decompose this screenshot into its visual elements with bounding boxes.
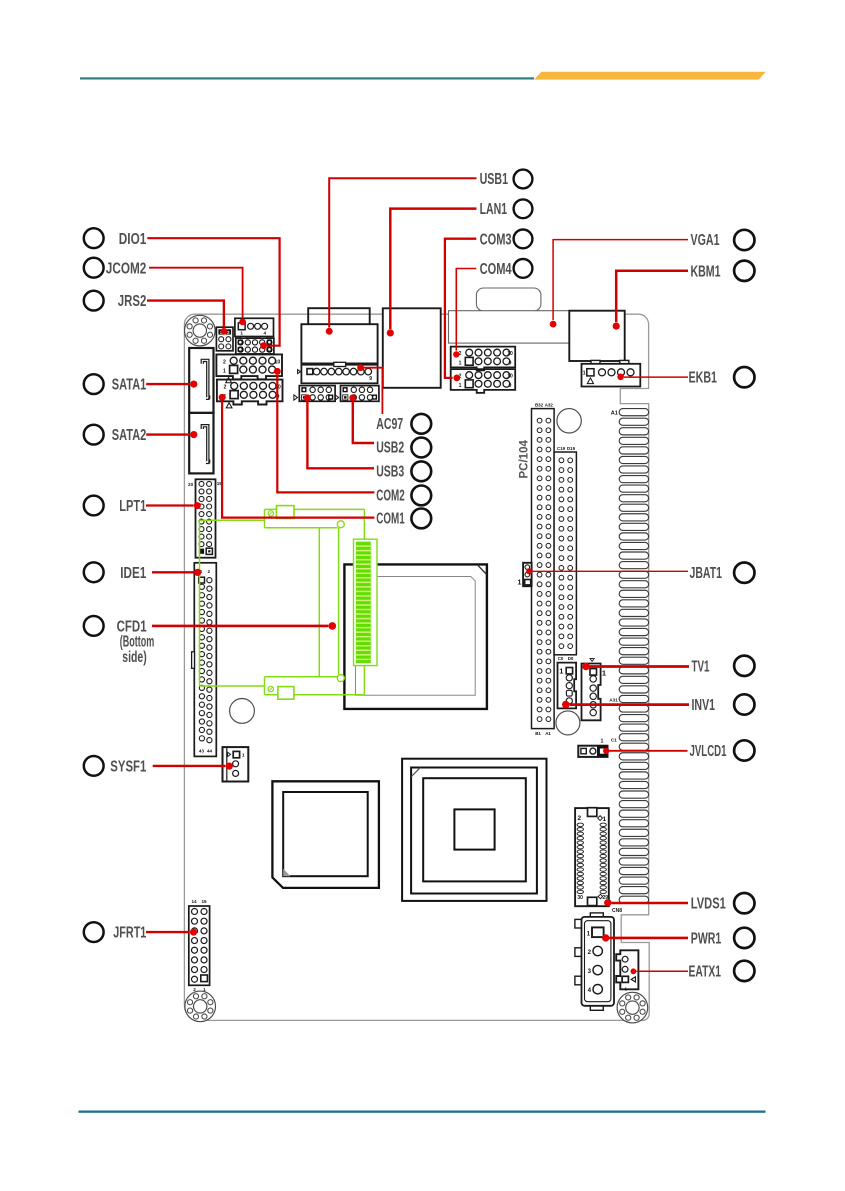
callout dot USB2 <box>349 394 356 401</box>
callout dot INV1 <box>562 701 570 709</box>
svg-text:20: 20 <box>188 482 194 487</box>
callout line KBM1 <box>616 271 688 322</box>
callout dot VGA1 <box>550 321 557 328</box>
svg-text:1: 1 <box>459 361 462 367</box>
chip southbridge inner <box>283 792 368 876</box>
callout line JRS2 <box>147 301 224 328</box>
label circle JFRT1 <box>84 922 104 942</box>
connector USB1 body <box>301 324 377 363</box>
chip southbridge outer <box>272 781 379 888</box>
svg-text:JCOM2: JCOM2 <box>106 260 147 277</box>
svg-text:EATX1: EATX1 <box>689 964 722 981</box>
chip CPU U1 outer <box>344 564 487 709</box>
svg-text:COM4: COM4 <box>480 261 512 278</box>
svg-text:14: 14 <box>191 899 197 904</box>
connector TV1 <box>582 659 607 721</box>
svg-text:INV1: INV1 <box>692 697 716 714</box>
label circle COM2 <box>411 486 431 506</box>
label circle KBM1 <box>734 261 754 281</box>
callout line PWR1 <box>609 937 688 940</box>
header COM2 <box>216 354 282 382</box>
label circle COM3 <box>514 230 533 249</box>
label circle LPT1 <box>84 496 104 516</box>
callout dot CFD1 <box>329 622 337 630</box>
label circle PWR1 <box>734 928 754 948</box>
svg-text:1: 1 <box>587 931 591 938</box>
jumper JBAT1 <box>517 563 531 587</box>
board outline <box>184 314 649 1020</box>
svg-text:2: 2 <box>193 987 196 992</box>
svg-text:CN8: CN8 <box>612 908 622 914</box>
callout dot COM4 <box>453 351 459 357</box>
svg-text:A1: A1 <box>611 411 618 417</box>
label circle LAN1 <box>514 199 533 218</box>
label circle CFD1 <box>84 616 104 636</box>
CF latch top <box>277 506 295 519</box>
callout line COM2 <box>277 375 374 493</box>
svg-text:C0: C0 <box>558 656 564 661</box>
svg-text:B1: B1 <box>535 731 541 736</box>
header rule teal <box>80 77 534 79</box>
chip BGA ring3 <box>423 778 526 881</box>
svg-text:43: 43 <box>199 749 204 754</box>
svg-text:2: 2 <box>208 569 211 574</box>
svg-text:D0: D0 <box>568 656 574 661</box>
callout line LAN1 <box>390 209 476 329</box>
label circle JRS2 <box>84 291 104 311</box>
svg-text:3: 3 <box>588 968 592 975</box>
jumper JVLCD1 <box>578 738 607 757</box>
callout dot USB3 <box>304 394 311 401</box>
svg-text:side): side) <box>122 649 147 666</box>
callout dot PWR1 <box>602 934 609 941</box>
header JCOM2 <box>235 318 274 339</box>
svg-text:2: 2 <box>223 385 226 391</box>
header PC/104 rows C-D <box>554 446 576 661</box>
callout line CFD1 <box>152 625 328 628</box>
label circle COM1 <box>411 509 431 529</box>
svg-text:COM1: COM1 <box>376 511 405 528</box>
svg-text:SYSF1: SYSF1 <box>110 759 146 776</box>
callout dot DIO1 <box>260 342 267 349</box>
callout line USB2 <box>353 401 374 443</box>
header USB2 <box>335 386 379 402</box>
label circle JVLCD1 <box>734 740 754 760</box>
connector USB1 tab <box>308 308 370 324</box>
callout line JFRT1 <box>146 931 190 933</box>
svg-text:(Bottom: (Bottom <box>120 634 155 651</box>
callout dot JFRT1 <box>190 929 197 936</box>
callout dot JVLCD1 <box>603 748 609 754</box>
header PC/104 rows A-B <box>532 402 555 736</box>
svg-text:JVLCD1: JVLCD1 <box>690 743 727 760</box>
svg-text:10: 10 <box>275 359 281 365</box>
mounting hole bottom-right <box>617 992 648 1023</box>
svg-text:1: 1 <box>600 738 603 744</box>
CF latch bottom <box>278 687 294 700</box>
callout line AC97 <box>361 368 383 414</box>
svg-text:COM3: COM3 <box>480 231 512 248</box>
svg-text:JRS2: JRS2 <box>118 293 147 310</box>
svg-text:9: 9 <box>509 383 512 389</box>
svg-text:DIO1: DIO1 <box>119 231 147 248</box>
callout line TV1 <box>590 665 690 668</box>
svg-text:A31: A31 <box>609 698 618 703</box>
connector LVDS1 <box>575 808 609 906</box>
header JRS2 <box>216 327 233 351</box>
svg-text:10: 10 <box>507 351 513 357</box>
label circle VGA1 <box>734 230 754 250</box>
label circle LVDS1 <box>734 893 754 913</box>
footer rule blue <box>79 1111 766 1113</box>
connector SATA2 <box>189 413 213 474</box>
svg-text:VGA1: VGA1 <box>691 232 720 249</box>
chip BGA ring2 <box>411 768 537 894</box>
svg-text:1: 1 <box>240 331 243 336</box>
svg-text:2: 2 <box>577 815 581 822</box>
connector SATA1 <box>189 348 213 413</box>
header COM4 <box>451 369 516 393</box>
callout dot EATX1 <box>631 968 637 974</box>
mounting hole top-left <box>185 315 216 346</box>
svg-text:4: 4 <box>588 987 592 994</box>
svg-text:30: 30 <box>577 895 583 901</box>
callout dot SATA1 <box>190 381 197 388</box>
svg-text:USB2: USB2 <box>376 440 404 457</box>
chip CPU U1 inner <box>356 577 476 696</box>
callout dot JCOM2 <box>239 319 246 326</box>
callout dot COM2 <box>274 368 281 375</box>
connector VGA1 body <box>449 311 570 343</box>
connector EATX1 <box>616 950 638 991</box>
callout line EKB1 <box>624 376 688 378</box>
header IDE1 <box>192 563 217 757</box>
CF guide circle bottom <box>337 675 344 682</box>
label circle DIO1 <box>84 228 104 248</box>
label circle SATA2 <box>84 425 104 445</box>
header USB3 <box>294 386 335 402</box>
callout line COM1 <box>222 401 374 518</box>
callout line USB1 <box>329 178 476 327</box>
callout dot LPT1 <box>194 502 201 509</box>
board edge fingers <box>619 409 648 904</box>
label circle USB1 <box>514 170 533 189</box>
callout line COM3 <box>445 239 476 378</box>
callout dot IDE1 <box>194 569 201 576</box>
callout line SATA2 <box>146 433 190 435</box>
svg-text:EKB1: EKB1 <box>689 370 718 387</box>
svg-text:KBM1: KBM1 <box>691 263 721 280</box>
label circle SATA1 <box>84 374 104 394</box>
CF pin block <box>354 539 378 665</box>
svg-text:9: 9 <box>369 376 372 382</box>
header EKB1 <box>582 360 641 386</box>
label circle INV1 <box>734 694 754 714</box>
callout line LVDS1 <box>612 902 689 905</box>
connector VGA1 shell <box>476 288 541 311</box>
callout dot AC97 <box>357 364 364 371</box>
svg-text:1: 1 <box>559 666 563 675</box>
svg-text:SATA2: SATA2 <box>112 427 147 444</box>
callout line JCOM2 <box>149 268 243 318</box>
mounting hole PC104 top <box>557 409 581 433</box>
label circle AC97 <box>411 414 431 434</box>
svg-text:PWR1: PWR1 <box>691 931 722 948</box>
header SYSF1 <box>223 747 249 781</box>
svg-text:PC/104: PC/104 <box>519 440 531 479</box>
svg-text:2: 2 <box>223 359 226 365</box>
callout line IDE1 <box>152 571 194 573</box>
svg-text:1: 1 <box>459 383 462 389</box>
CF screw top <box>268 511 273 516</box>
svg-text:JFRT1: JFRT1 <box>113 925 146 942</box>
callout dot LVDS1 <box>604 899 611 906</box>
label circle EKB1 <box>734 367 754 387</box>
callout line SYSF1 <box>153 765 226 767</box>
svg-text:A32: A32 <box>545 402 554 407</box>
svg-text:1: 1 <box>602 816 606 823</box>
callout line VGA1 <box>553 240 688 321</box>
svg-text:JBAT1: JBAT1 <box>690 565 723 582</box>
svg-text:10: 10 <box>507 374 513 380</box>
svg-text:A1: A1 <box>545 731 551 736</box>
header JFRT1 <box>189 899 210 992</box>
svg-text:IDE1: IDE1 <box>120 565 146 582</box>
svg-text:1: 1 <box>223 369 226 375</box>
svg-text:B32: B32 <box>535 402 544 407</box>
svg-text:15: 15 <box>201 899 207 904</box>
callout line JBAT1 <box>531 570 688 572</box>
label circle EATX1 <box>734 961 754 981</box>
mounting hole PC104 bottom <box>556 711 580 735</box>
header DIO1 <box>236 338 274 354</box>
callout dot JRS2 <box>221 328 228 335</box>
label circle JBAT1 <box>734 563 754 583</box>
callout line COM4 <box>456 269 476 351</box>
callout dot SATA2 <box>190 431 197 438</box>
mounting hole bottom-left <box>185 991 216 1022</box>
chip BGA outer <box>402 759 546 901</box>
callout dot LAN1 <box>387 329 394 336</box>
connector KBM1 <box>569 311 624 361</box>
svg-text:9: 9 <box>509 361 512 367</box>
header LPT1 <box>188 479 222 557</box>
label circle COM4 <box>514 259 533 278</box>
callout dot COM3 <box>453 375 460 382</box>
connector PWR1 <box>575 913 614 1010</box>
header COM3 <box>451 347 516 371</box>
label circle USB3 <box>411 461 431 481</box>
header COM1 <box>217 380 283 408</box>
callout line LPT1 <box>146 504 194 506</box>
callout dot JBAT1 <box>526 568 532 574</box>
callout dot TV1 <box>582 663 590 671</box>
svg-text:C1: C1 <box>611 738 617 743</box>
svg-text:4: 4 <box>264 331 267 336</box>
svg-text:TV1: TV1 <box>692 659 710 676</box>
svg-text:LPT1: LPT1 <box>119 498 146 515</box>
callout dot EKB1 <box>617 374 624 381</box>
svg-text:1: 1 <box>242 753 245 759</box>
CF screw bottom <box>268 686 273 691</box>
callout line USB3 <box>307 401 374 468</box>
header rule yellow <box>534 72 766 80</box>
label circle TV1 <box>734 656 754 676</box>
svg-text:AC97: AC97 <box>376 416 403 433</box>
svg-text:1: 1 <box>625 987 628 992</box>
svg-text:D19: D19 <box>567 446 576 451</box>
label circle JCOM2 <box>84 258 104 278</box>
callout dot KBM1 <box>613 323 620 330</box>
callout dot USB1 <box>326 328 333 335</box>
callout dot COM1 <box>219 394 226 401</box>
svg-text:2: 2 <box>588 949 592 956</box>
svg-text:1: 1 <box>602 669 606 678</box>
label circle IDE1 <box>84 562 104 582</box>
callout dot SYSF1 <box>226 763 233 770</box>
svg-text:C19: C19 <box>557 446 566 451</box>
label circle SYSF1 <box>84 756 104 776</box>
svg-text:USB1: USB1 <box>480 171 509 188</box>
label circle USB2 <box>411 438 431 458</box>
svg-text:44: 44 <box>207 749 212 754</box>
svg-text:SATA1: SATA1 <box>112 377 147 394</box>
CF guide circle top <box>337 521 344 528</box>
chip BGA ring2 chamfer <box>411 768 420 777</box>
callout line INV1 <box>570 703 689 706</box>
connector INV1 <box>558 663 577 709</box>
callout line SATA1 <box>146 383 190 385</box>
callout line EATX1 <box>636 970 688 972</box>
chip BGA die <box>454 809 494 849</box>
header AC97 <box>298 362 378 383</box>
svg-text:1: 1 <box>203 987 206 992</box>
svg-text:1: 1 <box>517 580 521 587</box>
svg-text:USB3: USB3 <box>376 464 404 481</box>
via hole near IDE1 <box>230 699 255 724</box>
svg-text:LAN1: LAN1 <box>480 201 508 218</box>
chip CPU U1 chamfer <box>477 565 486 575</box>
callout line DIO1 <box>147 238 279 346</box>
CF socket rails CFD1 <box>200 509 365 694</box>
callout line JVLCD1 <box>606 750 688 752</box>
svg-text:LVDS1: LVDS1 <box>691 896 726 913</box>
connector LAN1 <box>383 308 441 388</box>
chip southbridge mark <box>283 869 290 876</box>
svg-text:1: 1 <box>583 370 586 376</box>
svg-text:COM2: COM2 <box>376 487 405 504</box>
